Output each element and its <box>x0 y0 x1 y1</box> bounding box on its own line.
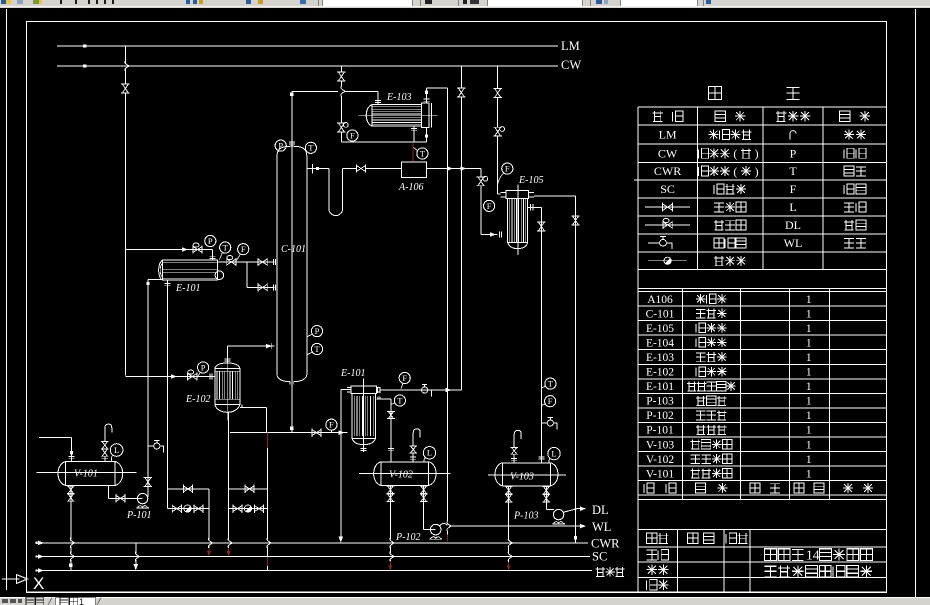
wire long vertical x=447.5 down to P-102 <box>447 88 449 521</box>
V-102 axis line <box>359 473 451 475</box>
valves V-102 left drain <box>388 486 393 493</box>
instrument P column side <box>311 326 322 337</box>
valve trap bypass E-102 <box>245 486 254 492</box>
valves V-103 left drain <box>506 487 511 494</box>
wire CW line under E-103 y=142.1 <box>341 141 426 143</box>
E-105 center line <box>517 185 519 256</box>
heat exchanger E-101 (horizontal shell) <box>163 260 218 280</box>
wire lower feed branch <box>246 262 248 287</box>
wire CW drop x=341.4 <box>340 66 342 72</box>
jump of CW drop over overhead line <box>341 86 345 97</box>
CW cooling water header line <box>57 65 558 67</box>
wire A-106 product down x=480.9 into E-105 <box>480 169 482 177</box>
valve after trap E-101 <box>194 506 203 512</box>
control valve on E-101 outlet <box>227 259 236 265</box>
vessel V-102 bottoms tank <box>381 462 429 486</box>
drawing title line 1 <box>765 549 777 561</box>
wire A-106 outlet to E-105 branch <box>427 168 481 170</box>
valve after trap E-102 <box>254 506 263 512</box>
sewer header <box>36 570 592 572</box>
instrument L V-101 <box>110 444 123 457</box>
wire V-101 drain to sewer <box>70 486 72 540</box>
instrument P column top <box>275 140 286 151</box>
wire reflux line from column <box>307 168 329 170</box>
wire CW drop x=497.7 to E-105 <box>497 66 499 89</box>
sampling valve on y=390 line <box>422 387 428 393</box>
wire E-101b side outlet to V-102 <box>377 398 391 400</box>
trap bypass line E-102 <box>229 488 268 490</box>
wire E-105 side outlet to product line x=541.4 <box>528 206 542 208</box>
instrument F on y=390 line <box>399 372 410 383</box>
instrument L V-103 <box>548 447 560 459</box>
pump P-102 <box>430 524 441 535</box>
valves V-102 right outlet <box>421 486 426 493</box>
wire LM drop to E-101 feed (x=125) <box>124 46 126 63</box>
valve V-103 vent <box>512 447 517 454</box>
title block grid <box>638 528 887 530</box>
legend table grid <box>638 106 887 108</box>
title block row 制图 <box>647 564 658 575</box>
instrument T E-101 outlet <box>220 242 231 253</box>
instrument F E-101 outlet <box>238 244 249 255</box>
CWR return header <box>36 542 588 544</box>
legend title <box>708 87 721 100</box>
wire E-101 outlet to column feed y=262 <box>217 261 274 263</box>
steam trap E-102 <box>244 505 251 512</box>
wire E-101 top nozzle drop <box>211 250 213 261</box>
instrument F product line <box>545 396 556 407</box>
wire E-101b top-left to CWR x=340.8 <box>341 389 351 391</box>
wire drain stub x=135.8 CWR to sewer <box>135 543 137 553</box>
control valve on x=341.4 <box>338 123 344 132</box>
trap bypass line E-101 <box>168 488 209 490</box>
instrument T product line <box>545 378 556 389</box>
V-103 axis line <box>488 474 566 476</box>
wire battery-limit feed to V-101 <box>39 436 72 438</box>
valve upper feed into C-101 <box>258 259 267 265</box>
reboiler E-102 shell <box>215 363 240 369</box>
valve to V-102 <box>388 411 393 418</box>
drawing window left edge <box>5 9 7 568</box>
vessel V-103 product tank <box>502 463 550 486</box>
legend row control valve <box>645 224 690 226</box>
valve V on LM drop <box>122 84 128 93</box>
wire E-102 condensate drop x=228.6 to SC <box>228 412 230 539</box>
title block header 职责 签名 日期 <box>647 533 658 544</box>
wire E-102 feed line y=376.5 <box>125 376 214 378</box>
instrument F near E-103 <box>347 130 358 141</box>
control valve on E-101 feed <box>193 247 202 253</box>
instrument P on E-101 feed <box>205 235 216 246</box>
condenser E-103 axis <box>358 115 437 117</box>
wire V-102 right outlet to P-102 <box>423 485 425 529</box>
wire trap outlet to SC x=208.9 <box>208 489 210 539</box>
instrument F E-105 left <box>484 200 495 211</box>
instrument F E-105 inlet <box>502 163 513 174</box>
instrument P E-102 feed <box>198 362 209 373</box>
wire x=461.3 corner to E-101b top line y=390 <box>381 389 462 391</box>
title block row 设计 <box>647 550 658 560</box>
legend row sample port <box>648 242 660 244</box>
valve on product line <box>538 222 544 231</box>
wire E-105 CW return to CWR x=575.5 <box>534 195 576 197</box>
exchanger E-101b shell <box>352 394 376 439</box>
toolbar sliver (top chrome) <box>0 0 930 8</box>
wire E-103 bottom nozzles to CW-out line <box>413 126 415 142</box>
trap line E-101 <box>168 508 209 510</box>
instrument L V-102 <box>423 447 435 459</box>
wire E-102 bottoms outlet to exchanger line <box>240 406 267 408</box>
wire drain x=267.4 to sewer <box>266 433 268 448</box>
sampling port on riser <box>148 445 154 447</box>
C-101 center line / overhead riser / bottoms drop <box>291 91 293 432</box>
sampling valve on E-102 feed <box>188 374 197 380</box>
status / layout-tab sliver (bottom chrome) <box>0 597 930 605</box>
cooler E-105 shell <box>508 199 528 243</box>
cooler E-105 top channel <box>506 191 529 199</box>
valve before trap E-102 <box>233 506 242 512</box>
E-102 center line <box>226 357 228 421</box>
legend row steam trap <box>648 260 687 262</box>
valve lower feed into C-101 <box>258 284 267 290</box>
red level line into A-106 <box>412 143 414 162</box>
steam trap E-101 <box>184 505 191 512</box>
exchanger E-101b top channel <box>351 386 377 394</box>
V-101 vent hook <box>105 424 112 441</box>
valve before trap E-101 <box>172 506 181 512</box>
valve V-102 vent <box>411 446 416 453</box>
wire product line into V-103 <box>540 456 542 463</box>
drawing window right edge <box>914 9 916 597</box>
wire E-101 feed line y=249.5 <box>125 249 212 251</box>
SC condensate header <box>36 556 590 558</box>
wire V-103 right outlet to P-103 <box>545 486 547 510</box>
instrument T above A-106 <box>417 148 428 159</box>
model tab label <box>26 597 34 605</box>
wire CW drop x=461.3 <box>460 66 462 88</box>
V-101 axis line <box>36 472 136 474</box>
valves V-101 drain <box>68 486 73 493</box>
drawing title line 2 <box>765 566 777 577</box>
wire overhead vapor line to E-103 <box>292 90 338 92</box>
instrument T E-101b outlet <box>394 395 405 406</box>
vessel V-101 feed tank <box>66 462 116 486</box>
instrument T column side <box>311 343 322 354</box>
valve on reflux line <box>356 166 365 172</box>
control valve on x=497.7 <box>495 127 501 136</box>
V-102 vent hook <box>413 429 420 446</box>
E-103 right channel <box>422 103 429 127</box>
wire E-101 condensate drop x=167.5 <box>167 280 169 508</box>
sampling port on product line <box>541 422 547 424</box>
trap line E-102 <box>229 508 268 510</box>
valves V-101 vent <box>102 442 107 449</box>
node sewer label <box>596 567 606 577</box>
valve on CW return <box>573 216 579 225</box>
valve on CW drop x=341.4 <box>338 72 344 81</box>
valve on x=497.7 <box>495 89 501 98</box>
E-101 right channel circle <box>215 271 224 280</box>
UCS icon <box>2 578 20 580</box>
wire V-101 outlet to P-101 <box>108 486 110 499</box>
wire bottoms line y=432.6 <box>230 432 348 434</box>
V-103 vent hook <box>514 430 521 447</box>
valve on bottoms line <box>312 430 321 436</box>
wire V-103 left drain to sewer <box>508 486 510 540</box>
equipment footer row <box>644 483 654 493</box>
E-101b center line <box>363 379 365 452</box>
wire P-102 discharge to WL header <box>440 523 447 525</box>
LM steam header line <box>57 45 558 47</box>
wire P-103 discharge to DL <box>564 509 577 513</box>
condenser E-103 shell <box>372 104 422 126</box>
legend header row <box>652 111 663 122</box>
column C-101 distillation tower <box>276 156 278 375</box>
control valve on x=480.9 <box>478 177 484 186</box>
reflux U seal loop <box>329 169 343 216</box>
wire P-101 discharge riser x=147.9 <box>147 280 149 498</box>
layout tab label <box>60 597 68 605</box>
valve trap bypass E-101 <box>183 486 192 492</box>
wire V-102 left drain to sewer <box>389 485 391 539</box>
title block row 审核 <box>647 580 658 591</box>
pump P-103 <box>553 509 563 519</box>
right panel side borders <box>637 270 639 593</box>
legend row stop valve <box>645 206 690 208</box>
wire E-101 shell stub to pump riser <box>148 279 163 281</box>
distributor A-106 <box>402 162 427 177</box>
valves V-103 right outlet <box>544 487 549 494</box>
valve on riser above P-101 <box>145 478 151 487</box>
instrument T column top <box>305 142 316 153</box>
pump P-101 <box>137 493 147 503</box>
valve on x=461.3 <box>458 88 464 97</box>
wire vapor return from E-102 to column <box>226 346 228 363</box>
equipment list table <box>638 287 887 289</box>
instrument F bottoms line <box>326 419 337 430</box>
wire E-103 vent riser to x=447.5 <box>425 88 427 103</box>
valve V-101 outlet <box>116 495 125 501</box>
